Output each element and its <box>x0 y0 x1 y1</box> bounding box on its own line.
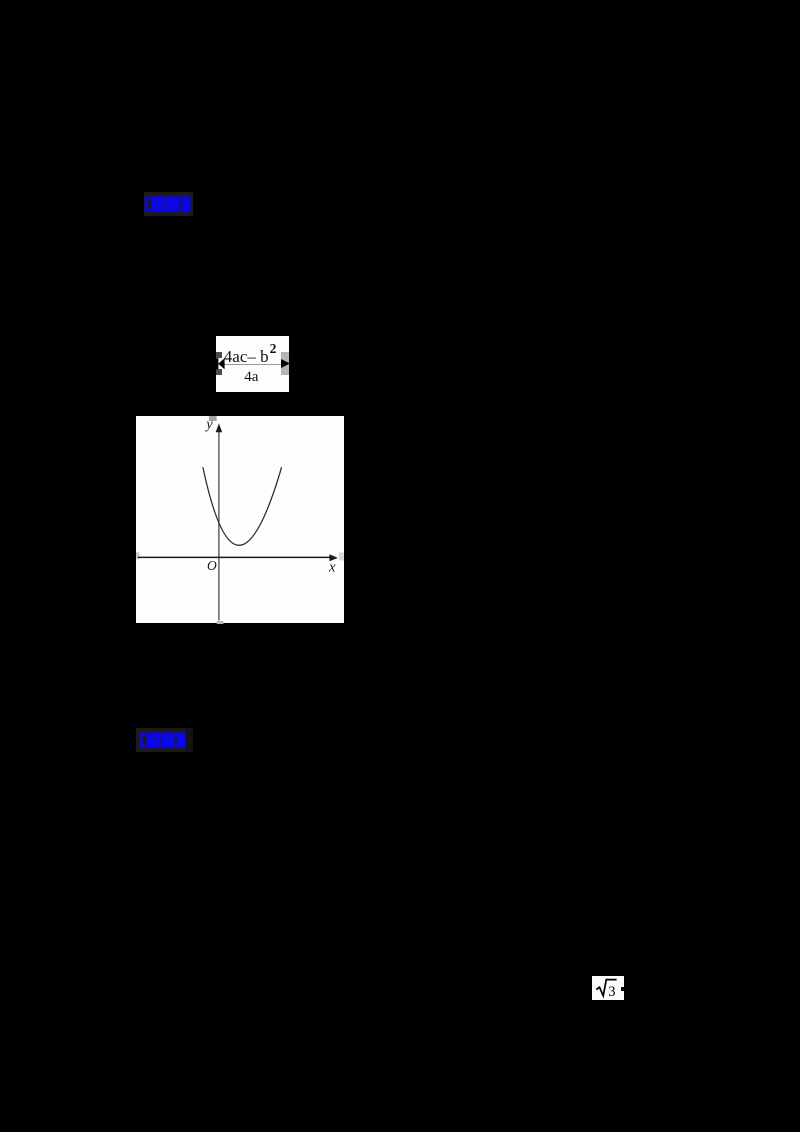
equation object box <box>216 336 289 392</box>
example label 2 text (blurred blue CJK-like glyph shapes) <box>139 732 186 748</box>
numerator superscript 2 <box>270 341 277 357</box>
sqrt(3) equation box <box>592 976 624 1000</box>
bottom grey handle <box>216 621 223 624</box>
graph image box <box>136 416 344 624</box>
y-axis arrowhead <box>215 423 222 432</box>
x-axis arrowhead <box>329 554 338 561</box>
fraction bar <box>222 364 283 366</box>
svg-text:3: 3 <box>608 984 615 1000</box>
left grey handle <box>136 552 139 559</box>
right grey handle <box>338 552 343 560</box>
cursor mark on right edge <box>621 987 624 992</box>
radical sign <box>596 980 616 996</box>
top grey handle <box>208 416 216 421</box>
svg-text:y: y <box>204 416 213 432</box>
parabola curve <box>202 467 281 545</box>
right spin arrow <box>281 359 291 368</box>
x-axis <box>137 556 331 558</box>
example label 2 highlight box <box>136 728 185 752</box>
right handle <box>281 352 289 375</box>
left handle lower <box>216 369 222 375</box>
svg-text:O: O <box>207 558 217 573</box>
left spin arrow <box>216 358 225 370</box>
example label 1 text (blurred blue CJK-like glyph shapes) <box>144 196 191 212</box>
denominator 4a <box>244 369 258 386</box>
numerator 4ac-b <box>224 347 286 367</box>
svg-text:x: x <box>328 559 336 575</box>
example label 2 highlight box extension <box>185 728 193 752</box>
y-axis <box>217 430 219 621</box>
example label 1 highlight box <box>144 192 193 216</box>
left handle upper <box>216 352 222 358</box>
